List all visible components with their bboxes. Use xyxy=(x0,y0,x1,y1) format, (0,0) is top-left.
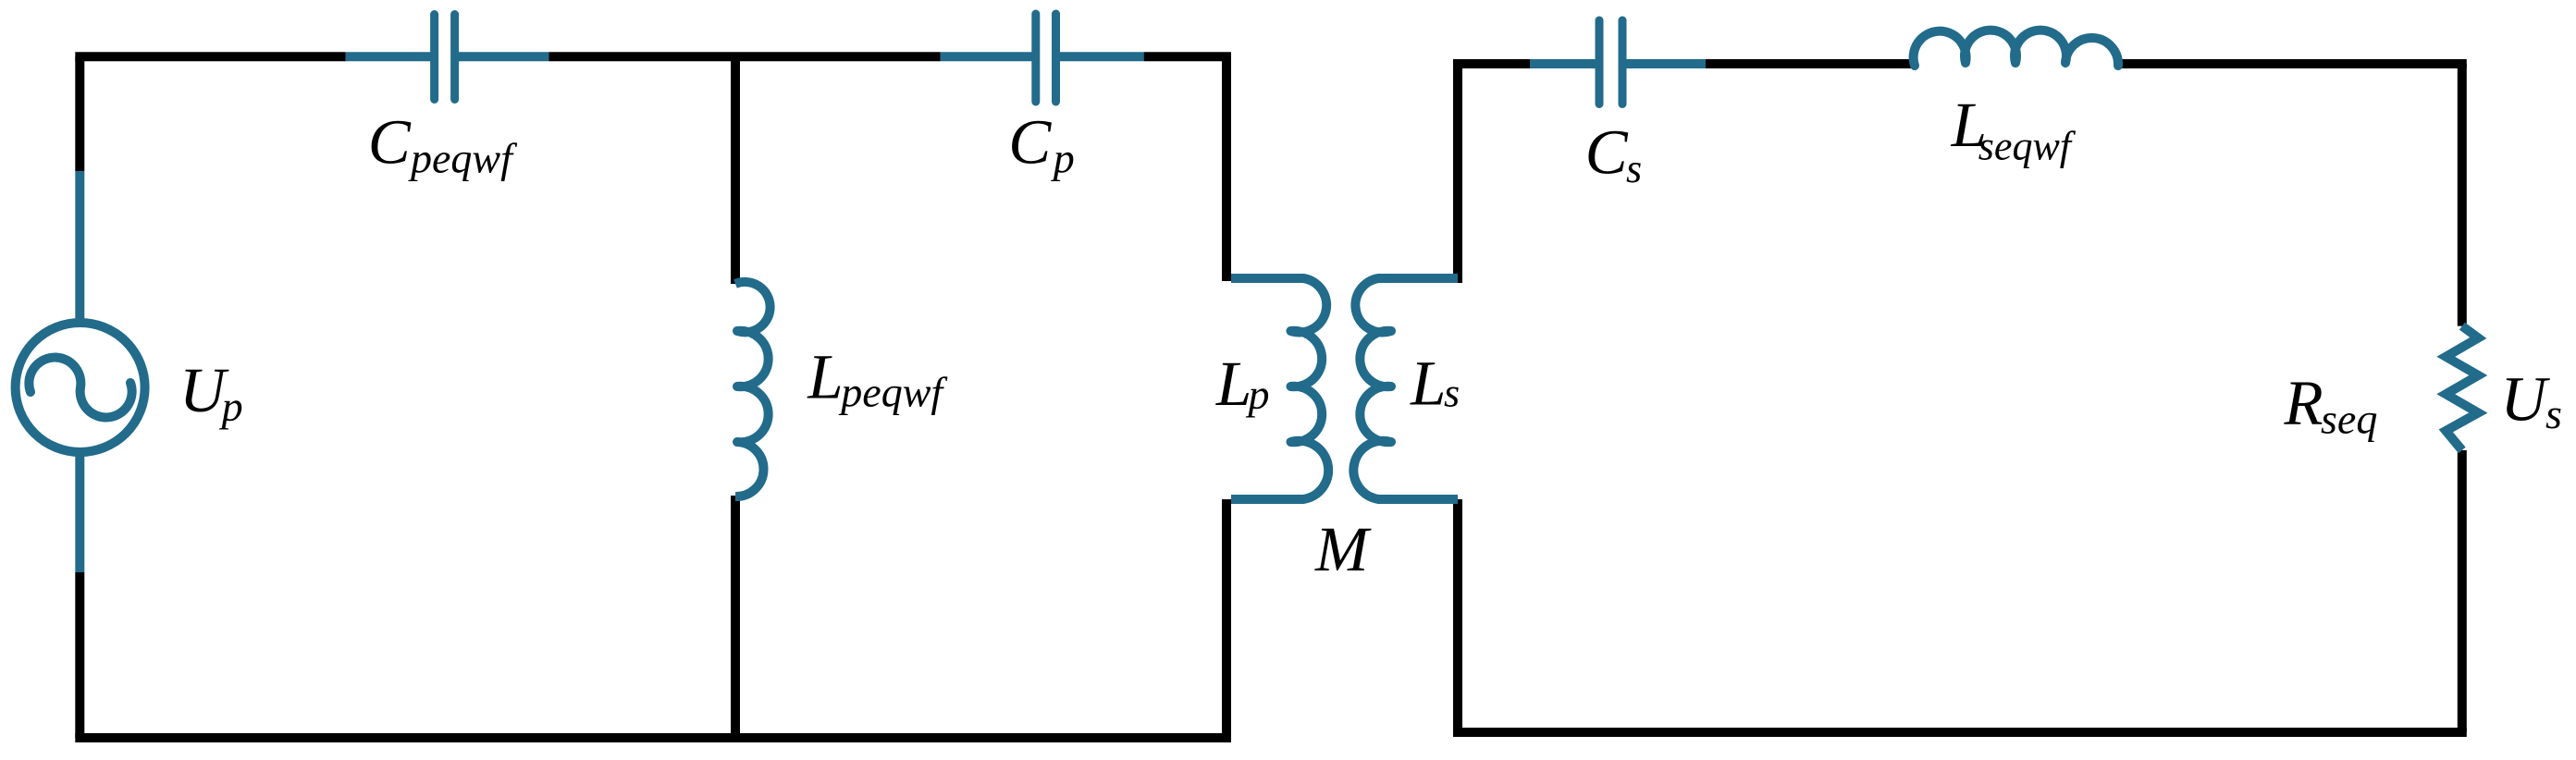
svg-text:s: s xyxy=(1444,371,1460,416)
svg-text:s: s xyxy=(1626,146,1642,191)
svg-text:s: s xyxy=(2545,390,2562,437)
svg-text:U: U xyxy=(2500,363,2550,434)
svg-text:L: L xyxy=(1215,349,1251,419)
svg-text:seqwf: seqwf xyxy=(1978,124,2077,169)
svg-text:C: C xyxy=(1585,117,1629,188)
svg-text:L: L xyxy=(807,342,843,412)
svg-text:C: C xyxy=(368,107,412,178)
svg-text:C: C xyxy=(1008,106,1052,177)
svg-text:L: L xyxy=(1410,348,1446,418)
svg-text:peqwf: peqwf xyxy=(838,369,948,416)
svg-text:M: M xyxy=(1314,514,1372,584)
svg-text:seq: seq xyxy=(2321,396,2377,443)
svg-text:peqwf: peqwf xyxy=(408,134,518,181)
svg-text:p: p xyxy=(1246,371,1270,418)
svg-text:R: R xyxy=(2284,368,2323,438)
svg-text:p: p xyxy=(219,383,243,430)
svg-text:p: p xyxy=(1051,135,1075,182)
